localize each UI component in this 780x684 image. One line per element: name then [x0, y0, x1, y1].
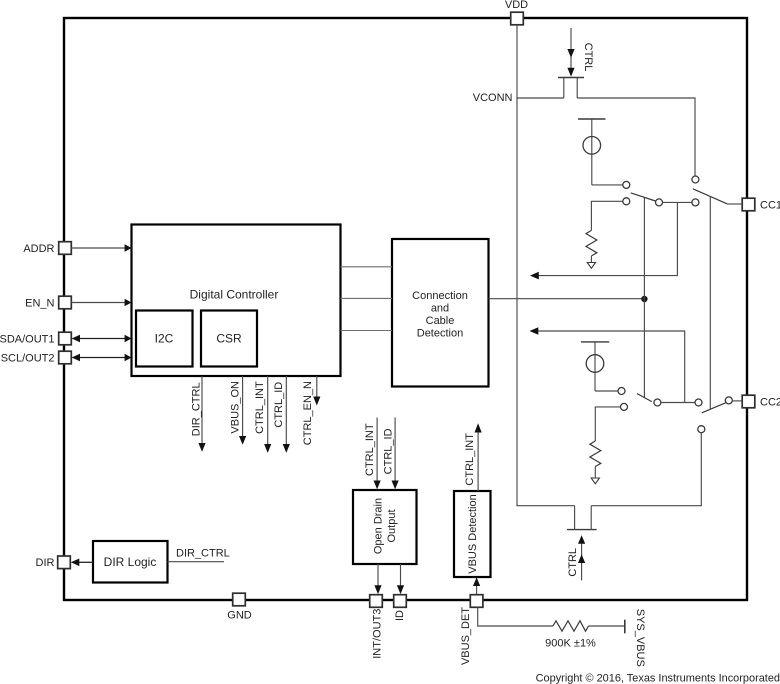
switch S3 pole contact: [654, 399, 661, 406]
switch S4 throw contact VCONN2: [698, 426, 705, 433]
switch S1 arm: [631, 193, 656, 201]
wire VCONN2 throw down to Q2: [591, 433, 701, 506]
svg-text:900K ±1%: 900K ±1%: [545, 638, 596, 650]
block Digital Controller: [132, 225, 341, 377]
svg-text:DIR: DIR: [36, 557, 55, 569]
switch S1 pole contact: [656, 199, 663, 206]
switch S3 contact B2 resistor: [621, 403, 628, 410]
wire VCONN branch: [517, 97, 564, 99]
svg-text:CTRL_ID: CTRL_ID: [273, 382, 285, 428]
wire controller to connection line 1: [341, 266, 393, 268]
svg-text:Open Drain: Open Drain: [373, 498, 385, 554]
switch S2 throw contact D: [692, 199, 699, 206]
svg-text:DIR_CTRL: DIR_CTRL: [191, 382, 203, 436]
svg-text:INT/OUT3: INT/OUT3: [372, 609, 384, 659]
block I2C: [136, 311, 193, 367]
wire CC2 rail sense to detection: [536, 331, 685, 403]
svg-text:ADDR: ADDR: [23, 243, 54, 255]
wire Q1 drain to switch S2 throw: [577, 98, 695, 176]
switch S3 contact A2 current source: [618, 388, 625, 395]
pin GND: [227, 593, 252, 621]
pin CC1: [742, 198, 780, 211]
resistor R1 Rd pulldown CC1: [586, 201, 623, 262]
wire connection block output to node: [489, 298, 645, 300]
wire VBUS_DET pin into VBUS detection: [473, 577, 480, 594]
ground open arrow R2: [591, 478, 599, 484]
wire resistor to SYS_VBUS terminal: [589, 625, 625, 627]
current source I1: [578, 119, 606, 185]
wire CTRL_ID output arrow: [283, 376, 290, 453]
svg-text:CSR: CSR: [216, 332, 242, 346]
switch S1 contact B resistor: [623, 198, 630, 205]
pin ID: [394, 595, 407, 621]
wire CTRL_EN_N output arrow: [313, 376, 320, 406]
pin CC2: [742, 395, 780, 408]
svg-text:SYS_VBUS: SYS_VBUS: [634, 609, 646, 667]
wire CTRL_INT output arrow: [264, 376, 271, 453]
wire CTRL gate arrow top: [567, 28, 574, 77]
svg-text:CC2: CC2: [760, 397, 780, 409]
wire open drain to INT/OUT3 pin: [374, 564, 381, 594]
svg-text:EN_N: EN_N: [25, 298, 54, 310]
svg-text:SCL/OUT2: SCL/OUT2: [1, 353, 55, 365]
pin DIR: [36, 556, 93, 569]
current source I2: [581, 342, 609, 391]
terminal bar SYS_VBUS: [624, 620, 626, 634]
switch S1 contact A current source: [623, 181, 630, 188]
wire open drain to ID pin: [397, 564, 404, 594]
wire S4 pole to CC2 pin: [732, 400, 742, 402]
wire CTRL_INT into open drain: [374, 418, 381, 490]
wire CTRL_ID into open drain: [392, 418, 399, 490]
wire controller to connection line 2: [341, 297, 393, 299]
arrowhead CC1 sense: [530, 272, 539, 280]
wire S3 pole to S4 throw rail: [661, 402, 695, 404]
svg-text:VBUS_DET: VBUS_DET: [460, 607, 472, 665]
wire CTRL gate arrow bottom: [578, 535, 585, 580]
svg-text:CTRL_INT: CTRL_INT: [254, 381, 266, 434]
svg-text:Digital Controller: Digital Controller: [190, 288, 279, 302]
transistor Q1 VCONN FET top: [558, 78, 584, 99]
wire controller to connection line 3: [341, 330, 393, 332]
wire DIR_CTRL output arrow: [198, 376, 205, 452]
wire VDD rail down to bottom FET: [517, 25, 575, 506]
pin SDA/OUT1: [0, 332, 131, 345]
svg-text:and: and: [431, 303, 449, 315]
wire CTRL_INT from VBUS detection up: [475, 423, 482, 491]
switch S4 pole contact: [725, 397, 732, 404]
wire gang link switch arms right: [709, 196, 711, 409]
pin EN_N: [25, 296, 131, 309]
svg-text:CTRL_INT: CTRL_INT: [364, 423, 376, 476]
arrowhead CC2 sense: [530, 327, 539, 335]
wire gang link switch arms left: [643, 197, 645, 397]
wire I2 to switch contact: [595, 390, 618, 392]
wire CC1 rail sense to detection: [536, 202, 677, 275]
block Connection and Cable Detection: [392, 239, 489, 387]
block Open Drain Output: [353, 490, 417, 564]
pin INT/OUT3: [370, 595, 384, 659]
svg-text:ID: ID: [394, 610, 406, 621]
svg-text:GND: GND: [227, 610, 252, 622]
svg-text:CTRL: CTRL: [567, 548, 579, 577]
switch S4 arm: [702, 403, 726, 413]
svg-text:DIR_CTRL: DIR_CTRL: [176, 548, 230, 560]
svg-text:CTRL_ID: CTRL_ID: [383, 428, 395, 474]
pin ADDR: [23, 242, 131, 255]
svg-text:CTRL: CTRL: [582, 43, 594, 72]
net label DIR_CTRL at DIR Logic: [168, 548, 230, 562]
svg-text:VBUS Detection: VBUS Detection: [467, 494, 479, 573]
pin SCL/OUT2: [1, 351, 132, 364]
wire VBUS_DET external to resistor: [478, 607, 553, 626]
switch S2 throw contact E VCONN: [692, 176, 699, 183]
block VBUS Detection: [454, 491, 491, 577]
wire S1 pole to S2 throw rail: [663, 201, 692, 203]
svg-text:Cable: Cable: [426, 315, 455, 327]
switch S2 arm to CC1: [693, 189, 742, 204]
svg-text:Detection: Detection: [417, 328, 463, 340]
block DIR Logic: [93, 541, 168, 583]
chip boundary: [64, 18, 747, 600]
switch S3 arm: [637, 394, 652, 402]
svg-text:VDD: VDD: [505, 0, 528, 11]
svg-text:DIR Logic: DIR Logic: [104, 555, 157, 569]
resistor R3 900K: [553, 621, 589, 631]
svg-text:Copyright © 2016, Texas Instru: Copyright © 2016, Texas Instruments Inco…: [536, 673, 780, 684]
svg-text:CTRL_INT: CTRL_INT: [464, 433, 476, 486]
node junction dot: [641, 296, 647, 302]
svg-text:Output: Output: [386, 509, 398, 542]
ground open arrow R1: [587, 263, 595, 269]
switch S4 throw contact D2: [695, 399, 702, 406]
svg-text:SDA/OUT1: SDA/OUT1: [0, 334, 55, 346]
svg-text:CC1: CC1: [760, 200, 780, 212]
svg-text:Connection: Connection: [412, 290, 468, 302]
transistor Q2 VCONN FET bottom: [567, 506, 597, 530]
block CSR: [201, 311, 257, 367]
wire I1 to switch contact: [592, 184, 623, 186]
svg-text:I2C: I2C: [155, 332, 174, 346]
svg-text:VCONN: VCONN: [473, 92, 513, 104]
pin VBUS_DET: [460, 595, 483, 665]
pin VDD: [505, 0, 528, 25]
resistor R2 Rd pulldown CC2: [590, 407, 621, 478]
wire VBUS_ON output arrow: [239, 376, 246, 445]
svg-text:VBUS_ON: VBUS_ON: [229, 381, 241, 434]
svg-text:CTRL_EN_N: CTRL_EN_N: [302, 381, 314, 445]
